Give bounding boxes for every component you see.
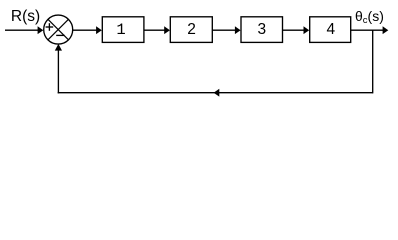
wire block 4 to output [351,29,384,31]
wire feedback bottom horizontal [58,92,373,94]
wire block 3 to block 4 [283,29,305,31]
svg-text:R(s): R(s) [11,8,40,25]
wire feedback vertical right [372,30,374,93]
wire block 1 to block 2 [144,29,165,31]
block 2 [170,17,212,43]
wire input R(s) to summing junction [5,29,38,31]
svg-text:2: 2 [187,21,196,38]
svg-text:1: 1 [116,21,125,39]
wire summing junction to block 1 [73,29,97,31]
summing junction U1 [44,15,73,44]
block 3 [241,17,283,43]
wire feedback vertical left up to summing junction [57,50,59,93]
wire block 2 to block 3 [212,29,236,31]
svg-text:3: 3 [257,21,266,38]
svg-text:4: 4 [326,21,335,38]
minus sign at summing junction [56,34,64,36]
plus sign at summing junction [46,23,54,31]
svg-text:θc(s): θc(s) [355,8,384,26]
block 4 [310,17,351,43]
block 1 [102,17,144,43]
